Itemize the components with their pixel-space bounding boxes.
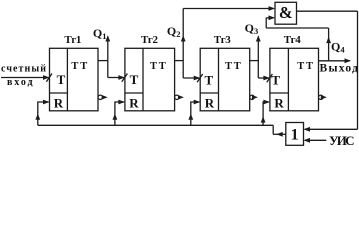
- svg-text:Т: Т: [80, 61, 87, 72]
- wire: Tr2 Q to Tr3 T: [183, 77, 199, 79]
- wire: Tr1 Q out stub: [98, 60, 108, 62]
- wire: Tr4 R riser: [263, 102, 269, 125]
- arrowhead Q2 up mid: [181, 35, 186, 41]
- svg-text:Q1: Q1: [93, 26, 107, 41]
- wire: jog up to reset bus: [272, 125, 274, 134]
- inverse output arrowhead Tr3: [252, 95, 258, 100]
- svg-text:Т: Т: [225, 61, 232, 72]
- svg-text:Т: Т: [57, 72, 66, 87]
- wire: stub into AND lower input: [266, 17, 274, 19]
- inverse output circle Tr2: [175, 95, 179, 99]
- wire: Tr2 Q out stub: [175, 60, 184, 62]
- wire: Tr1 R riser: [38, 102, 49, 125]
- inverse output arrowhead Tr1: [102, 95, 108, 100]
- arrowhead Tr2 R riser up mid: [113, 114, 118, 120]
- svg-text:R: R: [54, 96, 64, 111]
- wire: count input to T of Tr1: [1, 77, 49, 79]
- wire: Tr4 Q out to Vyhod arrow: [319, 60, 350, 62]
- label TT Tr2: [150, 61, 166, 72]
- arrowhead Tr3 R riser up mid: [188, 114, 193, 120]
- wire: into block 1 upper input: [305, 128, 358, 130]
- arrowhead Q1 up: [105, 35, 110, 41]
- dynamic input slash Tr1: [46, 74, 52, 82]
- inverse output stub Tr2: [179, 96, 181, 98]
- wire: Q3 vertical: [257, 37, 259, 79]
- arrowhead block1 upper input: [304, 127, 311, 132]
- wire: AND output right: [297, 10, 358, 12]
- inverse output circle Tr3: [250, 95, 254, 99]
- label TT Tr3: [225, 61, 241, 72]
- arrowhead block1 output left mid: [276, 132, 283, 137]
- wire: Q4 vertical up: [328, 28, 330, 61]
- wire: right edge drop: [357, 11, 359, 129]
- wire: Q1 vertical: [107, 37, 109, 78]
- label TT Tr1: [71, 61, 87, 72]
- arrowhead Q4 up mid: [326, 37, 331, 43]
- inverse output circle Tr4: [319, 95, 323, 99]
- arrowhead Tr3 R input: [194, 100, 201, 105]
- flip-flop Tr2 box: [125, 48, 175, 111]
- svg-text:Тг1: Тг1: [64, 34, 81, 46]
- AND gate U1 box: [275, 2, 297, 24]
- arrowhead Vyhod right: [345, 58, 352, 63]
- arrowhead Q3 up: [256, 35, 261, 41]
- svg-text:Выход: Выход: [320, 62, 359, 74]
- svg-text:вход: вход: [7, 77, 33, 88]
- wire: riser to AND lower input: [265, 18, 267, 28]
- wire: reset bus: [38, 124, 273, 126]
- arrowhead at Tr4 T input: [263, 76, 270, 81]
- dynamic input slash Tr2: [122, 74, 128, 82]
- svg-text:1: 1: [291, 127, 299, 144]
- label TT Tr4: [297, 61, 313, 72]
- wire: UIS to block 1 lower input: [305, 139, 327, 141]
- arrowhead at Tr2 T input: [118, 75, 125, 80]
- arrowhead AND lower input: [269, 15, 276, 20]
- wire: Q2 vertical to top: [182, 9, 184, 79]
- svg-text:Т: Т: [130, 72, 139, 87]
- inverse output stub Tr4: [323, 96, 325, 98]
- wire: block 1 output left: [273, 133, 286, 135]
- svg-text:Q3: Q3: [245, 21, 259, 36]
- svg-text:Т: Т: [150, 61, 157, 72]
- arrowhead Tr1 R riser up mid: [35, 114, 40, 120]
- svg-text:Т: Т: [159, 61, 166, 72]
- svg-text:Q4: Q4: [331, 40, 345, 55]
- svg-text:Т: Т: [234, 61, 241, 72]
- svg-text:Т: Т: [204, 72, 213, 87]
- svg-text:УИС: УИС: [329, 133, 355, 148]
- flip-flop Tr3 box: [200, 48, 250, 111]
- svg-text:Т: Т: [297, 61, 304, 72]
- arrowhead at Tr3 T input: [194, 76, 201, 81]
- svg-text:R: R: [274, 96, 284, 111]
- arrowhead AND upper input: [269, 6, 276, 11]
- one-shot block 1 box: [286, 123, 304, 146]
- flip-flop Tr1 box: [50, 48, 99, 111]
- wire: Tr3 Q out stub: [250, 60, 259, 62]
- svg-text:R: R: [205, 96, 215, 111]
- wire: Tr2 R riser: [115, 102, 124, 125]
- wire: Tr1 Q to Tr2 T: [108, 77, 124, 79]
- dynamic input slash Tr3: [197, 74, 203, 82]
- inverse output stub Tr3: [254, 96, 256, 98]
- inverse output stub Tr1: [103, 96, 105, 98]
- arrowhead Tr2 R input: [118, 100, 125, 105]
- dynamic input slash Tr4: [267, 74, 273, 82]
- arrowhead Tr1 R input: [43, 100, 50, 105]
- wire: Tr3 R riser: [191, 102, 200, 125]
- arrowhead Tr4 R input: [263, 100, 270, 105]
- arrowhead at Tr1 T input: [43, 75, 50, 80]
- inverse output circle Tr1: [98, 95, 102, 99]
- svg-text:R: R: [129, 96, 139, 111]
- svg-text:Т: Т: [306, 61, 313, 72]
- wire: Q4 top run left: [266, 27, 328, 29]
- flip-flop Tr4 box: [270, 48, 319, 111]
- svg-text:Тг2: Тг2: [141, 34, 159, 46]
- arrowhead block1 lower input: [304, 138, 311, 143]
- svg-text:Т: Т: [271, 72, 280, 87]
- wire: Tr3 Q to Tr4 T: [258, 77, 269, 79]
- svg-text:Т: Т: [71, 61, 78, 72]
- inverse output arrowhead Tr4: [321, 95, 327, 100]
- svg-text:&: &: [279, 3, 293, 22]
- svg-text:Тг4: Тг4: [284, 34, 302, 46]
- svg-text:Q2: Q2: [167, 24, 181, 39]
- wire: Q2 top run to AND input: [183, 8, 274, 10]
- arrowhead Tr4 R riser up mid: [261, 116, 266, 122]
- inverse output arrowhead Tr2: [178, 95, 184, 100]
- svg-text:Тг3: Тг3: [214, 34, 232, 46]
- svg-text:счетный: счетный: [1, 64, 46, 75]
